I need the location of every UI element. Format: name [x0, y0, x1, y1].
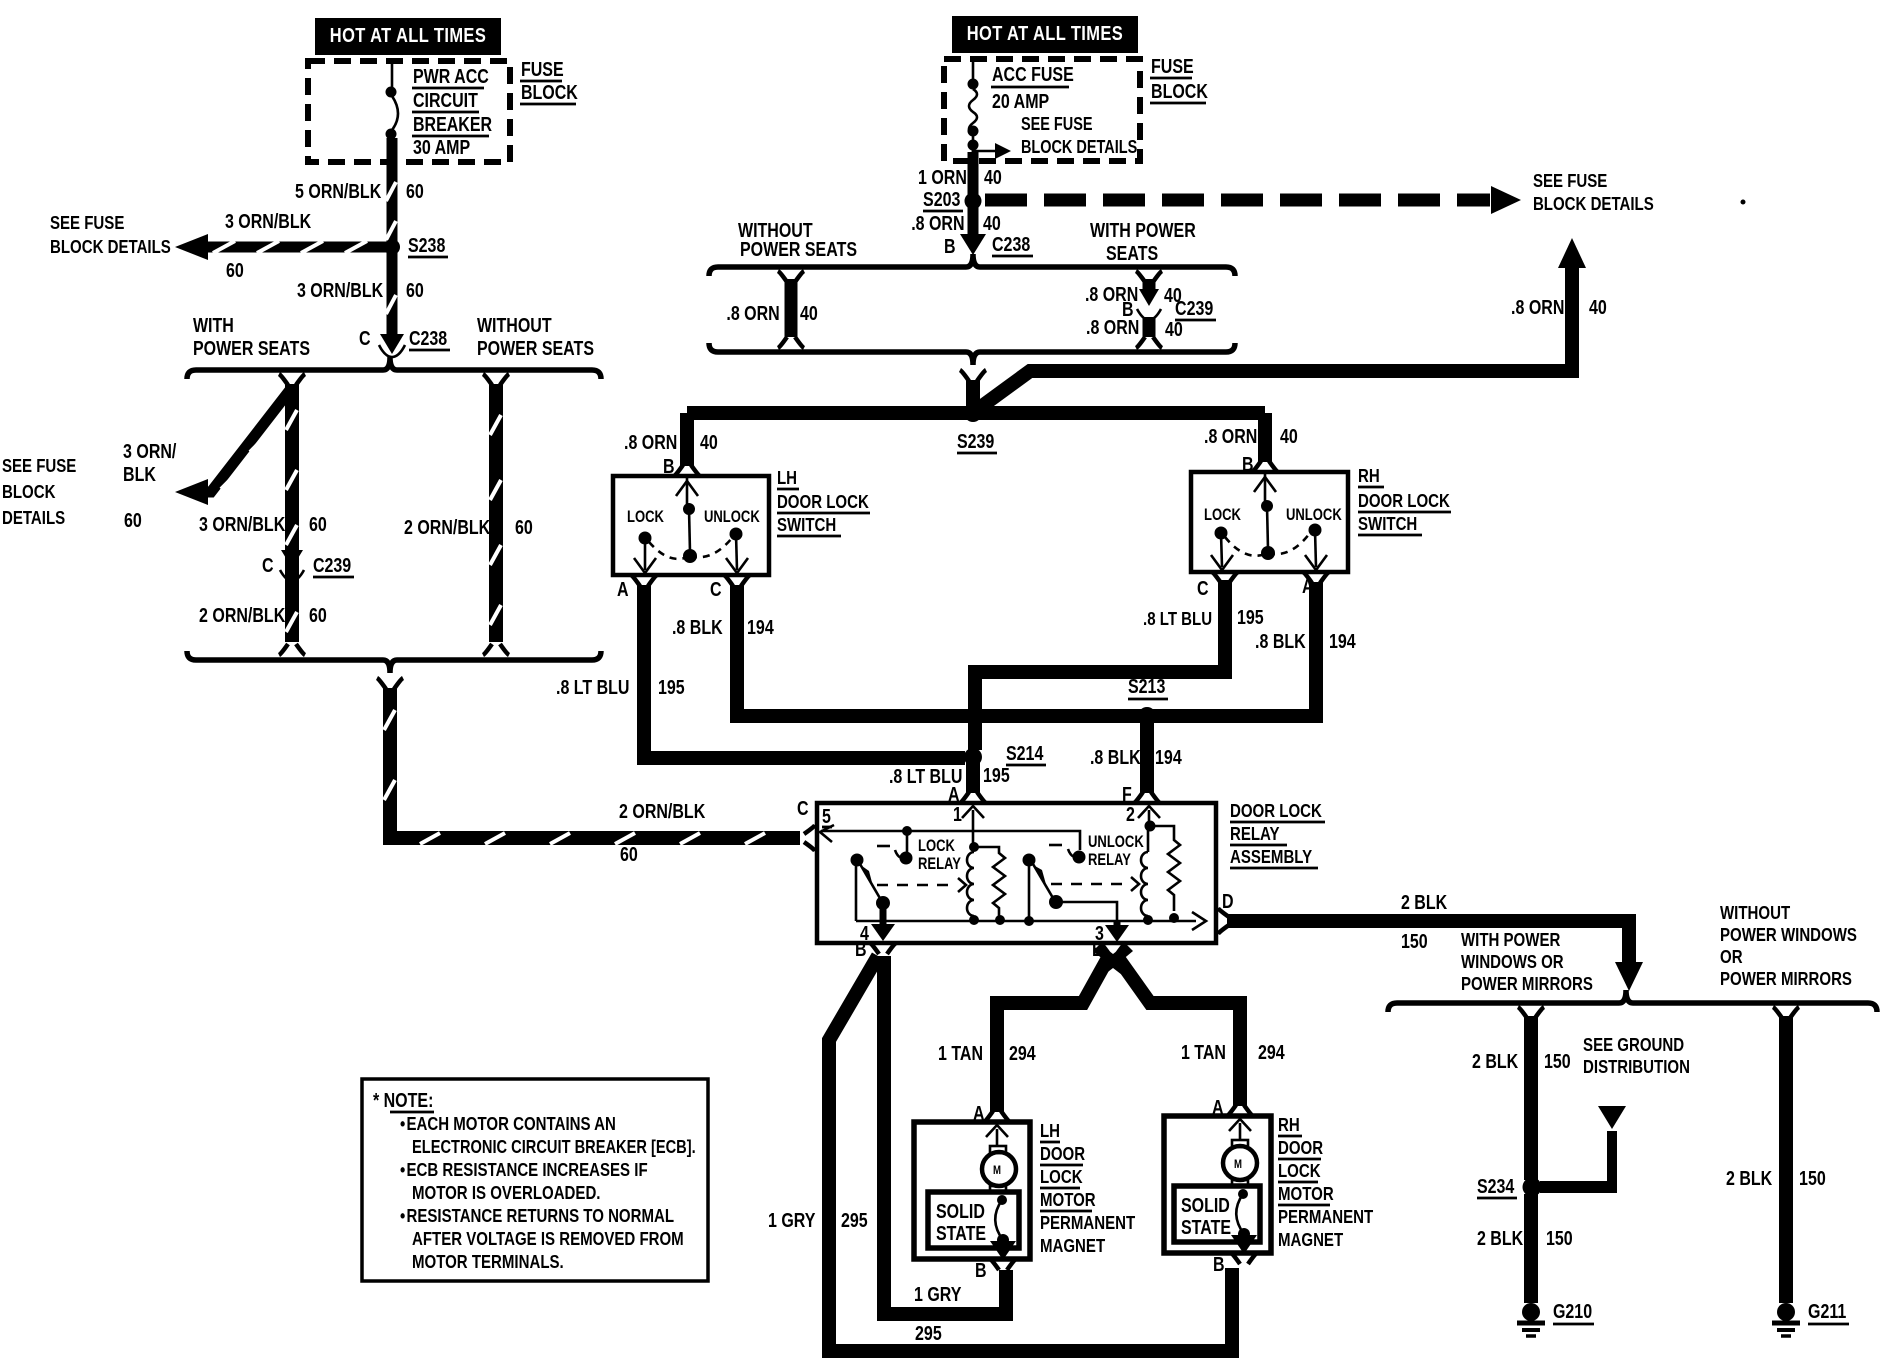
svg-text:1 TAN: 1 TAN — [1181, 1041, 1226, 1063]
label 2 ORN/BLK 60 (to relay) — [619, 800, 705, 865]
lock relay coil — [967, 852, 979, 925]
label 1 TAN 294 (LH) — [938, 1042, 1036, 1064]
svg-text:60: 60 — [515, 516, 533, 538]
wire without-power-seats branch (2 ORN/BLK) — [483, 374, 509, 642]
svg-text:RELAY: RELAY — [918, 856, 961, 874]
svg-text:A: A — [617, 578, 629, 600]
wire 3 ORN/BLK 60 from S238 to C238 — [386, 247, 396, 336]
svg-text:LOCK: LOCK — [1204, 507, 1241, 525]
LH door lock switch box — [613, 476, 769, 575]
svg-text:194: 194 — [1155, 746, 1182, 768]
svg-text:SEE GROUND: SEE GROUND — [1583, 1034, 1684, 1055]
label 3 ORN/ BLK 60 (diagonal arrow) — [123, 440, 176, 531]
wire end hook (with power seats) — [279, 644, 305, 655]
splice S214 — [964, 742, 1046, 766]
relay pin 1 (A) — [953, 803, 984, 852]
svg-text:LOCK: LOCK — [1278, 1160, 1321, 1181]
unlock relay coil — [1141, 826, 1153, 925]
wire .8 BLK 194 from LH pin C to S213 and RH pin A — [737, 582, 1316, 716]
label 1 ORN 40 — [918, 166, 1002, 188]
wire 2 ORN/BLK 60 from brace to relay pin C — [377, 678, 815, 851]
label .8 LT BLU 195 (LH pin A wire) — [556, 676, 685, 698]
label WITHOUT POWER SEATS (left) — [477, 314, 594, 359]
wire 2 BLK 150 from relay pin D to brace — [1218, 908, 1643, 991]
LH switch pin labels A and C — [617, 575, 750, 600]
svg-text:RELAY: RELAY — [1088, 852, 1131, 870]
wire .8 ORN 40 from S203 to C238 — [968, 201, 979, 236]
svg-text:POWER SEATS: POWER SEATS — [740, 238, 857, 260]
svg-text:BREAKER: BREAKER — [413, 113, 492, 135]
svg-text:1: 1 — [953, 803, 962, 825]
svg-text:150: 150 — [1401, 930, 1428, 952]
svg-text:MOTOR: MOTOR — [1040, 1189, 1096, 1210]
svg-text:S203: S203 — [923, 188, 960, 210]
svg-text:WITHOUT: WITHOUT — [1720, 902, 1791, 923]
wire from brace to splice S239 — [960, 370, 986, 413]
LH motor pin A connector — [973, 1102, 1010, 1124]
label 1 GRY 295 (outer loop vertical) — [768, 1209, 868, 1231]
connector C238 pin B (right) — [944, 233, 1033, 257]
svg-text:2 ORN/BLK: 2 ORN/BLK — [619, 800, 705, 822]
label .8 LT BLU 195 (RH pin C wire) — [1143, 606, 1264, 629]
label .8 ORN 40 (above C238) — [911, 212, 1001, 234]
label LOCK RELAY — [918, 838, 961, 874]
svg-text:.8 BLK: .8 BLK — [1255, 630, 1306, 652]
svg-text:1 GRY: 1 GRY — [914, 1283, 961, 1305]
RH switch internals — [1204, 474, 1342, 570]
svg-text:UNLOCK: UNLOCK — [1286, 507, 1342, 525]
brace merge (center, closing) — [709, 343, 1235, 365]
svg-text:40: 40 — [1165, 318, 1183, 340]
unlock relay mechanical linkage (dashed) — [1049, 845, 1139, 891]
svg-text:RELAY: RELAY — [1230, 823, 1280, 844]
stray dot artifact top right — [1741, 200, 1746, 205]
fuse block box (right, dashed) — [944, 59, 1140, 161]
label WITH POWER WINDOWS OR POWER MIRRORS — [1461, 929, 1593, 994]
svg-text:BLOCK: BLOCK — [2, 481, 56, 502]
lock relay switch arm and pin 4 — [851, 854, 896, 945]
label SEE FUSE BLOCK DETAILS (top right) — [1533, 170, 1654, 214]
wire stub .8 ORN 40 (without power seats) — [778, 271, 804, 348]
connector C238 pin C (left) — [359, 327, 450, 357]
svg-text:2 BLK: 2 BLK — [1472, 1050, 1518, 1072]
label 2 ORN/BLK 60 (branch lower) — [199, 604, 327, 626]
label SEE FUSE BLOCK DETAILS (inside fuse block) — [1021, 115, 1137, 158]
svg-text:LOCK: LOCK — [627, 509, 664, 527]
label 2 BLK 150 (pin D wire) — [1401, 891, 1447, 952]
label 3 ORN/BLK 60 (branch) — [199, 513, 327, 535]
svg-text:SOLID: SOLID — [1181, 1194, 1230, 1216]
note box — [362, 1079, 708, 1281]
label 3 ORN/BLK 60 (below S238) — [297, 279, 424, 301]
svg-text:* NOTE:: * NOTE: — [373, 1089, 433, 1111]
svg-text:195: 195 — [983, 764, 1010, 786]
svg-text:AFTER VOLTAGE IS REMOVED FROM: AFTER VOLTAGE IS REMOVED FROM — [412, 1228, 684, 1249]
relay pin-5 feed rail — [820, 825, 1086, 865]
wire 1 TAN 294 from relay pin E to LH motor pin A — [997, 958, 1108, 1112]
wire .8 BLK 194 from S213 to relay pin F — [1134, 716, 1160, 803]
svg-text:195: 195 — [658, 676, 685, 698]
svg-text:S239: S239 — [957, 430, 994, 452]
svg-text:20 AMP: 20 AMP — [992, 90, 1049, 112]
wire 1 GRY 295 from relay pin B to RH motor pin B (outer loop) — [829, 956, 1232, 1351]
svg-text:PERMANENT: PERMANENT — [1040, 1212, 1136, 1233]
RH door lock motor box — [1164, 1116, 1271, 1253]
svg-text:60: 60 — [309, 513, 327, 535]
svg-text:B: B — [944, 235, 956, 257]
svg-text:1 ORN: 1 ORN — [918, 166, 967, 188]
ACC fuse element — [968, 59, 979, 152]
label .8 BLK 194 (LH pin C wire) — [672, 616, 774, 638]
connector C239 pin C (left branch) — [262, 550, 354, 581]
svg-text:60: 60 — [406, 180, 424, 202]
wire end hook (without power seats) — [483, 644, 509, 655]
label DOOR LOCK RELAY ASSEMBLY — [1230, 800, 1325, 868]
label 3 ORN/BLK 60 (arrow) — [225, 210, 311, 281]
svg-text:DETAILS: DETAILS — [2, 507, 65, 528]
svg-text:.8 ORN: .8 ORN — [726, 302, 779, 324]
svg-text:SEATS: SEATS — [1106, 242, 1158, 264]
brace merge (left, closing) — [187, 651, 601, 673]
relay pin 2 (F) — [1126, 803, 1160, 831]
svg-text:STATE: STATE — [1181, 1216, 1231, 1238]
label .8 BLK 194 (RH pin A wire) — [1255, 630, 1356, 652]
svg-text:SEE FUSE: SEE FUSE — [1021, 115, 1093, 135]
LH motor solid state box — [928, 1192, 1019, 1248]
svg-text:.8 LT BLU: .8 LT BLU — [1143, 608, 1212, 629]
svg-text:DOOR: DOOR — [1040, 1143, 1085, 1164]
label 2 ORN/BLK 60 (without power seats) — [404, 516, 533, 538]
label ACC FUSE 20 AMP — [991, 63, 1074, 112]
lock relay mechanical linkage (dashed) — [877, 846, 966, 892]
wire stub .8 ORN 40 with connector C239 pin B (with power seats) — [1136, 271, 1162, 348]
svg-text:POWER WINDOWS: POWER WINDOWS — [1720, 924, 1857, 945]
svg-text:40: 40 — [983, 212, 1001, 234]
label SEE GROUND DISTRIBUTION — [1583, 1034, 1690, 1077]
label 2 BLK 150 (above G211) — [1726, 1167, 1826, 1189]
svg-text:SEE FUSE: SEE FUSE — [1533, 170, 1607, 191]
ground G211 — [1772, 1300, 1849, 1336]
label .8 ORN 40 (stub) — [726, 302, 817, 324]
svg-text:DOOR LOCK: DOOR LOCK — [777, 491, 869, 512]
svg-text:FUSE: FUSE — [1151, 55, 1194, 77]
svg-text:MAGNET: MAGNET — [1040, 1235, 1106, 1256]
LH motor internals — [982, 1125, 1016, 1260]
svg-text:LH: LH — [777, 467, 797, 488]
svg-text:2 ORN/BLK: 2 ORN/BLK — [404, 516, 490, 538]
svg-text:2 ORN/BLK: 2 ORN/BLK — [199, 604, 285, 626]
svg-text:C238: C238 — [992, 233, 1030, 255]
svg-text:1 TAN: 1 TAN — [938, 1042, 983, 1064]
svg-text:POWER SEATS: POWER SEATS — [477, 337, 594, 359]
RH door lock switch box — [1191, 472, 1348, 572]
svg-text:• RESISTANCE RETURNS TO NORMAL: • RESISTANCE RETURNS TO NORMAL — [400, 1205, 674, 1226]
svg-text:WITHOUT: WITHOUT — [477, 314, 552, 336]
svg-text:OR: OR — [1720, 946, 1743, 967]
label 2 BLK 150 (above G210) — [1477, 1227, 1573, 1249]
wire 1 GRY from relay pin B to LH motor pin B (inner loop) — [884, 956, 1006, 1314]
svg-text:194: 194 — [1329, 630, 1356, 652]
note text — [373, 1089, 696, 1272]
svg-text:POWER MIRRORS: POWER MIRRORS — [1720, 968, 1852, 989]
svg-text:30 AMP: 30 AMP — [413, 136, 470, 158]
svg-text:DOOR LOCK: DOOR LOCK — [1230, 800, 1322, 821]
svg-text:LH: LH — [1040, 1120, 1060, 1141]
svg-text:40: 40 — [700, 431, 718, 453]
wire 2 BLK 150 to S234 — [1518, 1007, 1544, 1180]
svg-text:• ECB RESISTANCE INCREASES IF: • ECB RESISTANCE INCREASES IF — [400, 1159, 648, 1180]
svg-text:2: 2 — [1126, 803, 1135, 825]
svg-text:UNLOCK: UNLOCK — [704, 509, 760, 527]
wire .8 ORN 40 down to RH switch pin B — [1252, 413, 1278, 472]
svg-text:40: 40 — [800, 302, 818, 324]
svg-text:3 ORN/: 3 ORN/ — [123, 440, 176, 462]
svg-text:S214: S214 — [1006, 742, 1043, 764]
svg-text:G211: G211 — [1808, 1300, 1846, 1322]
svg-text:M: M — [993, 1164, 1001, 1177]
label LH DOOR LOCK MOTOR PERMANENT MAGNET — [1040, 1120, 1136, 1256]
svg-text:LOCK: LOCK — [1040, 1166, 1083, 1187]
svg-text:BLOCK DETAILS: BLOCK DETAILS — [1021, 138, 1137, 158]
svg-text:60: 60 — [226, 259, 244, 281]
label RH DOOR LOCK MOTOR PERMANENT MAGNET — [1278, 1114, 1374, 1250]
wire 1 ORN 40 from fuse to S203 — [968, 152, 979, 200]
wire 2 BLK 150 to G211 — [1773, 1007, 1799, 1303]
label WITHOUT POWER WINDOWS OR POWER MIRRORS — [1720, 902, 1857, 989]
svg-text:ELECTRONIC CIRCUIT BREAKER [EC: ELECTRONIC CIRCUIT BREAKER [ECB]. — [412, 1136, 696, 1157]
LH switch internals — [627, 478, 760, 573]
svg-text:B: B — [855, 938, 867, 960]
svg-text:PERMANENT: PERMANENT — [1278, 1206, 1374, 1227]
svg-text:B: B — [1213, 1253, 1225, 1275]
svg-text:RH: RH — [1278, 1114, 1300, 1135]
svg-text:40: 40 — [1589, 296, 1607, 318]
svg-text:M: M — [1234, 1158, 1242, 1171]
label RH DOOR LOCK SWITCH — [1358, 465, 1451, 535]
brace split WITHOUT/WITH POWER SEATS (center, opening) — [709, 254, 1235, 276]
svg-text:SWITCH: SWITCH — [777, 514, 836, 535]
power tag HOT AT ALL TIMES (right) — [952, 16, 1138, 53]
door lock relay assembly box — [817, 803, 1216, 943]
svg-text:POWER MIRRORS: POWER MIRRORS — [1461, 973, 1593, 994]
svg-text:.8 BLK: .8 BLK — [1090, 746, 1141, 768]
RH motor pin A connector — [1212, 1096, 1253, 1118]
svg-text:SOLID: SOLID — [936, 1200, 985, 1222]
label FUSE BLOCK (right) — [1150, 55, 1208, 103]
wire .8 LT BLU 195 from LH pin A to S214 — [644, 585, 965, 758]
svg-text:C239: C239 — [313, 554, 351, 576]
svg-text:SEE FUSE: SEE FUSE — [50, 212, 124, 233]
label PWR ACC CIRCUIT BREAKER 30 AMP — [412, 65, 492, 158]
wire .8 ORN 40 from S239 up-right to fuse block details (up arrow) — [978, 238, 1586, 409]
svg-text:60: 60 — [620, 843, 638, 865]
svg-text:5: 5 — [822, 805, 831, 827]
svg-text:294: 294 — [1009, 1042, 1036, 1064]
svg-text:5 ORN/BLK: 5 ORN/BLK — [295, 180, 381, 202]
svg-text:MAGNET: MAGNET — [1278, 1229, 1344, 1250]
svg-text:ASSEMBLY: ASSEMBLY — [1230, 846, 1313, 867]
svg-text:MOTOR TERMINALS.: MOTOR TERMINALS. — [412, 1251, 564, 1272]
svg-text:S238: S238 — [408, 234, 445, 256]
svg-text:SWITCH: SWITCH — [1358, 513, 1417, 534]
svg-text:C239: C239 — [1175, 297, 1213, 319]
svg-text:LOCK: LOCK — [918, 838, 955, 856]
svg-text:294: 294 — [1258, 1041, 1285, 1063]
wire 1 TAN 294 from relay pin E to RH motor pin A — [1118, 958, 1240, 1106]
fuse block box (left, dashed) — [308, 61, 510, 162]
svg-text:C: C — [359, 327, 371, 349]
fuse details arrow inside fuse block — [973, 143, 1011, 159]
splice S203 — [923, 188, 982, 211]
relay pin B connector — [855, 938, 896, 960]
svg-text:C238: C238 — [409, 327, 447, 349]
RH motor solid state box — [1174, 1186, 1260, 1242]
svg-text:C: C — [710, 578, 722, 600]
wire 2 BLK 150 from S234 to G210 — [1524, 1194, 1538, 1303]
relay common rail to pin D — [856, 890, 1234, 930]
svg-text:295: 295 — [915, 1322, 942, 1344]
svg-text:HOT AT ALL TIMES: HOT AT ALL TIMES — [330, 23, 486, 46]
label SEE FUSE BLOCK DETAILS (mid left) — [2, 455, 76, 528]
dashed wire from S203 to fuse block details (right arrow) — [985, 186, 1521, 214]
svg-text:60: 60 — [406, 279, 424, 301]
svg-text:WITH: WITH — [193, 314, 234, 336]
label .8 ORN 40 (up arrow wire) — [1511, 296, 1607, 318]
svg-text:ACC FUSE: ACC FUSE — [992, 63, 1074, 85]
svg-text:MOTOR: MOTOR — [1278, 1183, 1334, 1204]
svg-text:B: B — [975, 1259, 987, 1281]
svg-text:.8 BLK: .8 BLK — [672, 616, 723, 638]
relay pin C and pin 5 — [797, 797, 832, 827]
splice S234 — [1477, 1175, 1542, 1198]
svg-text:G210: G210 — [1553, 1300, 1592, 1322]
wire 5 ORN/BLK 60 from breaker to S238 — [386, 138, 396, 247]
svg-text:150: 150 — [1546, 1227, 1573, 1249]
label .8 ORN 40 (RH switch feed) — [1204, 425, 1298, 475]
unlock relay resistor — [1150, 826, 1180, 923]
splice S213 — [1128, 675, 1168, 725]
svg-text:POWER SEATS: POWER SEATS — [193, 337, 310, 359]
svg-text:• EACH MOTOR CONTAINS AN: • EACH MOTOR CONTAINS AN — [400, 1113, 616, 1134]
brace split WITH/WITHOUT POWER SEATS (left, opening) — [187, 357, 601, 379]
circuit breaker element inside fuse block — [386, 61, 399, 140]
splice S238 — [384, 234, 448, 257]
svg-text:40: 40 — [984, 166, 1002, 188]
svg-text:C: C — [262, 554, 274, 576]
svg-text:PWR ACC: PWR ACC — [413, 65, 489, 87]
label 1 TAN 294 (RH) — [1181, 1041, 1285, 1063]
svg-text:UNLOCK: UNLOCK — [1088, 834, 1144, 852]
RH motor internals — [1223, 1119, 1257, 1254]
svg-text:MOTOR IS OVERLOADED.: MOTOR IS OVERLOADED. — [412, 1182, 600, 1203]
RH switch pin labels C and A — [1197, 572, 1329, 599]
svg-text:295: 295 — [841, 1209, 868, 1231]
svg-text:3 ORN/BLK: 3 ORN/BLK — [297, 279, 383, 301]
svg-text:WITH POWER: WITH POWER — [1461, 929, 1560, 950]
ground G210 — [1517, 1300, 1594, 1336]
lock relay resistor — [974, 847, 1005, 925]
svg-text:.8 ORN: .8 ORN — [624, 431, 677, 453]
svg-text:WITH POWER: WITH POWER — [1090, 219, 1196, 241]
unlock relay switch arm and pin 3 — [1023, 854, 1130, 945]
svg-text:D: D — [1222, 890, 1234, 912]
svg-text:FUSE: FUSE — [521, 58, 564, 80]
svg-text:1 GRY: 1 GRY — [768, 1209, 815, 1231]
LH door lock motor box — [914, 1122, 1030, 1259]
svg-text:DISTRIBUTION: DISTRIBUTION — [1583, 1056, 1690, 1077]
ground distribution branch with down arrow — [1540, 1106, 1626, 1193]
svg-text:C: C — [1197, 577, 1209, 599]
label LH DOOR LOCK SWITCH — [777, 467, 870, 536]
svg-text:DOOR: DOOR — [1278, 1137, 1323, 1158]
svg-text:2 BLK: 2 BLK — [1726, 1167, 1772, 1189]
svg-text:.8 ORN: .8 ORN — [1086, 316, 1139, 338]
power tag HOT AT ALL TIMES (left) — [315, 18, 501, 55]
RH motor pin B connector — [1213, 1253, 1257, 1275]
wire with-power-seats branch (3 ORN/BLK) — [279, 374, 305, 642]
svg-text:BLOCK: BLOCK — [521, 81, 578, 103]
wire .8 LT BLU 195 from S214 to relay pin A — [960, 757, 986, 803]
wire .8 ORN 40 down to LH switch pin B — [674, 413, 700, 476]
label WITHOUT POWER SEATS (center) — [738, 219, 857, 260]
wire 3 ORN/BLK 60 diagonal to left arrow (see fuse block details) — [175, 390, 290, 505]
svg-text:S234: S234 — [1477, 1175, 1514, 1197]
label SEE FUSE BLOCK DETAILS (upper left) — [50, 212, 171, 257]
LH motor pin B connector — [975, 1259, 1016, 1281]
label .8 BLK 194 (S213 to relay) — [1090, 746, 1182, 805]
svg-text:150: 150 — [1544, 1050, 1571, 1072]
svg-text:.8 ORN: .8 ORN — [1204, 425, 1257, 447]
wire 3 ORN/BLK 60 to fuse block details (left arrow) — [175, 234, 388, 260]
label 2 BLK 150 (above S234) — [1472, 1050, 1571, 1072]
labels .8 ORN 40 / B C239 / .8 ORN 40 (right stub) — [1085, 283, 1216, 340]
svg-text:C: C — [797, 797, 809, 819]
svg-text:WINDOWS OR: WINDOWS OR — [1461, 951, 1564, 972]
svg-text:.8 ORN: .8 ORN — [911, 212, 964, 234]
wire .8 LT BLU 195 from RH pin C to S214 — [975, 580, 1225, 750]
svg-text:60: 60 — [309, 604, 327, 626]
label FUSE BLOCK (left) — [520, 58, 578, 104]
svg-text:BLK: BLK — [123, 463, 156, 485]
svg-text:SEE FUSE: SEE FUSE — [2, 455, 76, 476]
svg-text:3 ORN/BLK: 3 ORN/BLK — [199, 513, 285, 535]
svg-text:DOOR LOCK: DOOR LOCK — [1358, 490, 1450, 511]
splice S239 with horizontal distribution wire — [687, 404, 1265, 453]
svg-text:BLOCK DETAILS: BLOCK DETAILS — [1533, 193, 1654, 214]
svg-text:60: 60 — [124, 509, 142, 531]
label .8 ORN 40 (LH switch feed) — [624, 431, 718, 477]
svg-text:STATE: STATE — [936, 1222, 986, 1244]
relay pin E connector — [1092, 938, 1133, 978]
svg-text:BLOCK: BLOCK — [1151, 80, 1208, 102]
svg-text:194: 194 — [747, 616, 774, 638]
svg-text:195: 195 — [1237, 606, 1264, 628]
label .8 LT BLU 195 A (S214 to relay) — [889, 764, 1010, 805]
svg-text:CIRCUIT: CIRCUIT — [413, 89, 478, 111]
svg-text:BLOCK DETAILS: BLOCK DETAILS — [50, 236, 171, 257]
svg-text:3 ORN/BLK: 3 ORN/BLK — [225, 210, 311, 232]
label UNLOCK RELAY — [1088, 834, 1144, 870]
svg-text:HOT AT ALL TIMES: HOT AT ALL TIMES — [967, 21, 1123, 44]
svg-text:.8 LT BLU: .8 LT BLU — [556, 676, 629, 698]
svg-text:S213: S213 — [1128, 675, 1165, 697]
label 5 ORN/BLK 60 — [295, 180, 424, 202]
label WITH POWER SEATS (center) — [1090, 219, 1196, 264]
svg-text:.8 ORN: .8 ORN — [1511, 296, 1564, 318]
svg-text:2 BLK: 2 BLK — [1401, 891, 1447, 913]
brace split power windows/mirrors (opening) — [1388, 990, 1877, 1012]
svg-text:2 BLK: 2 BLK — [1477, 1227, 1523, 1249]
